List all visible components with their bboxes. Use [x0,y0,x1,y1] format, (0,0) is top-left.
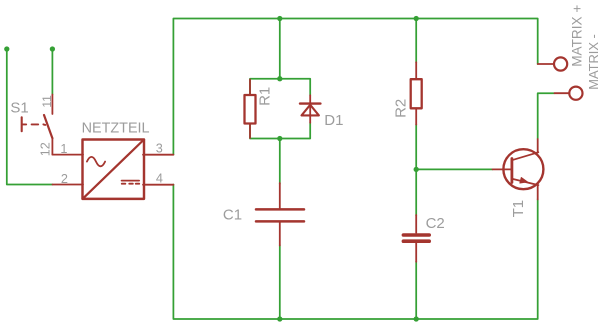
svg-text:C2: C2 [426,215,445,232]
transistor T1 [493,139,544,200]
wire: base node down to C2 [415,169,417,215]
capacitor C1 [256,183,304,246]
wire: top supply rail [173,19,537,155]
wire: trunk R1/D1 node down to C1 [279,139,281,185]
node: junction R1/D1 bottom [277,136,282,141]
pin 2 stub [53,184,84,186]
svg-text:T1: T1 [510,200,527,218]
svg-text:MATRIX -: MATRIX - [586,34,600,90]
wire: C2 bottom to ground rail [415,262,417,320]
node: junction top rail / R2 [414,16,419,21]
node: wire end dot left [4,46,9,51]
pin 4 stub [143,184,173,186]
connector pad MATRIX - [555,87,583,100]
wire: S1 feed left (dot to netzteil pin2) [7,49,53,185]
node: junction ground rail / C1 [277,316,282,321]
svg-text:11: 11 [40,95,54,108]
node: junction R1/D1 top [277,76,282,81]
node: junction top rail / trunk [277,16,282,21]
diode D1 [300,95,320,123]
switch S1 [22,95,83,155]
wire: base node to transistor base [416,168,492,170]
svg-text:1: 1 [60,142,67,156]
resistor R1 [245,80,256,139]
connector pad MATRIX + [538,57,568,70]
svg-text:NETZTEIL: NETZTEIL [82,120,150,136]
power supply U NETZTEIL [53,140,174,199]
svg-text:S1: S1 [10,99,28,116]
capacitor C2 [403,215,429,262]
node: wire end dot right [50,46,55,51]
svg-text:R2: R2 [392,99,409,118]
wire: R1/D1 parallel loop [250,79,310,96]
wire: rail to R2 top [415,19,417,63]
svg-text:R1: R1 [256,87,273,106]
wire: collector up to MATRIX- stub [538,93,555,139]
resistor R2 [411,62,422,124]
wire: bottom ground rail [173,185,537,320]
pin 3 stub [143,154,173,156]
wire: S1 feed right (dot to switch) [51,49,53,95]
node: junction base/C2 [414,167,419,172]
node: junction ground rail / C2 [414,316,419,321]
svg-text:C1: C1 [223,206,242,223]
svg-text:3: 3 [156,141,163,155]
wire: main trunk top (rail to R1/D1 node) [279,19,281,79]
wire: C1 bottom to ground rail [279,245,281,319]
svg-text:2: 2 [61,172,68,186]
svg-text:D1: D1 [324,112,343,129]
wire: R2 bottom to base node [415,125,417,170]
svg-text:12: 12 [38,142,52,156]
svg-text:MATRIX +: MATRIX + [570,5,585,67]
svg-text:4: 4 [156,172,163,186]
